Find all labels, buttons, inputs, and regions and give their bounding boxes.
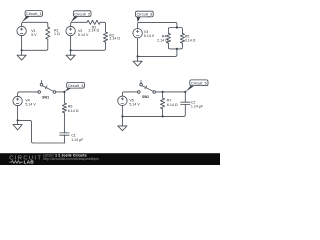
wire R6 to C1 bbox=[63, 113, 65, 133]
svg-text:SW1: SW1 bbox=[42, 95, 49, 99]
svg-text:5.14 V: 5.14 V bbox=[144, 34, 155, 38]
svg-text:LAB: LAB bbox=[24, 160, 35, 165]
wire circuit4 bottom bbox=[18, 120, 65, 143]
svg-text:5.14 V: 5.14 V bbox=[129, 103, 140, 107]
node dot circuit5 left bbox=[121, 115, 123, 117]
node dot circuit3 bottom bbox=[176, 48, 178, 50]
node dot circuit2 bbox=[70, 49, 72, 51]
node dot circuit5 R7 bottom bbox=[162, 115, 164, 117]
capacitor C2 bbox=[181, 102, 190, 104]
svg-text:2.14 Ω: 2.14 Ω bbox=[89, 29, 100, 33]
node dot circuit1 bbox=[21, 49, 23, 51]
capacitor C1 bbox=[60, 133, 69, 135]
svg-text:Circuit_4: Circuit_4 bbox=[68, 83, 85, 88]
svg-text:6.14 Ω: 6.14 Ω bbox=[167, 103, 178, 107]
wire R3 bottom bbox=[71, 42, 106, 50]
wire circuit3 top bbox=[138, 22, 177, 28]
ground circuit2 bbox=[66, 55, 75, 60]
ground circuit1 bbox=[17, 55, 26, 60]
voltage source V2 bbox=[66, 26, 75, 35]
node dot circuit4 corner bbox=[63, 91, 65, 93]
label Circuit_4 bbox=[65, 82, 85, 91]
resistor R2 bbox=[87, 20, 100, 24]
wire circuit3 bottom stub bbox=[138, 49, 177, 57]
wire V4 bottom bbox=[17, 106, 19, 125]
wire circuit4 top bbox=[18, 92, 39, 96]
svg-text:3.14 Ω: 3.14 Ω bbox=[109, 37, 120, 41]
wire circuit4 right bbox=[63, 92, 65, 103]
wire SW1 to corner bbox=[56, 91, 65, 93]
svg-text:1.14 μF: 1.14 μF bbox=[191, 105, 204, 109]
svg-text:http://circuitlab.com/c6kkdqsm: http://circuitlab.com/c6kkdqsmb6hpw bbox=[43, 157, 99, 161]
resistor R1 bbox=[46, 27, 50, 39]
node dot circuit5 corner bbox=[184, 91, 186, 93]
wire C2 bottom bbox=[122, 104, 185, 116]
wire circuit3 bottom bar bbox=[168, 43, 182, 49]
svg-text:Circuit_2: Circuit_2 bbox=[74, 11, 91, 16]
voltage source V4 bbox=[13, 96, 22, 105]
wire SW2 to R7 bbox=[155, 91, 185, 93]
svg-text:SW2: SW2 bbox=[142, 95, 149, 99]
svg-text:Circuit_3: Circuit_3 bbox=[137, 12, 154, 17]
ground circuit4 bbox=[13, 125, 22, 130]
switch SW2 bbox=[138, 91, 141, 94]
wire circuit5 top bbox=[122, 92, 137, 96]
resistor R4 bbox=[166, 33, 170, 43]
ground circuit5 bbox=[118, 126, 127, 131]
resistor R7 bbox=[161, 98, 165, 109]
svg-text:6.14 Ω: 6.14 Ω bbox=[68, 109, 79, 113]
resistor R3 bbox=[103, 32, 107, 42]
wire C1 bottom bbox=[63, 135, 65, 143]
ground circuit3 bbox=[133, 61, 142, 66]
wire circuit2 top bbox=[71, 22, 87, 26]
node dot circuit5 R7 top bbox=[162, 91, 164, 93]
node dot circuit4 bbox=[17, 119, 19, 121]
switch SW1 bbox=[38, 91, 41, 94]
svg-text:2.14 Ω: 2.14 Ω bbox=[157, 39, 168, 43]
wire R2 to corner bbox=[100, 22, 105, 32]
wire V3 bottom bbox=[137, 38, 139, 61]
svg-text:1 Ω: 1 Ω bbox=[54, 32, 60, 36]
resistor R6 bbox=[62, 103, 66, 113]
label Circuit_1 bbox=[22, 11, 43, 23]
svg-text:Circuit_1: Circuit_1 bbox=[26, 11, 43, 16]
wire circuit3 top bar bbox=[168, 28, 182, 34]
node dot circuit3 left bbox=[137, 55, 139, 57]
svg-text:5.14 V: 5.14 V bbox=[78, 33, 89, 37]
label Circuit_5 bbox=[186, 80, 208, 92]
node dot circuit3 top bbox=[176, 26, 178, 28]
voltage source V5 bbox=[118, 96, 127, 105]
resistor R5 bbox=[180, 33, 184, 43]
svg-text:1.14 μF: 1.14 μF bbox=[71, 138, 84, 142]
svg-text:3.14 Ω: 3.14 Ω bbox=[185, 39, 196, 43]
label Circuit_3 bbox=[136, 11, 154, 22]
resistor R7 wire top bbox=[162, 92, 164, 98]
CircuitLab logo resistor zigzag bbox=[10, 161, 24, 164]
footer bar bbox=[0, 153, 220, 165]
svg-text:5.14 V: 5.14 V bbox=[25, 103, 36, 107]
wire R7 bottom bbox=[162, 109, 164, 117]
label Circuit_2 bbox=[71, 11, 91, 22]
wire V5 bottom bbox=[121, 106, 123, 126]
wire V1 bottom bbox=[21, 36, 23, 56]
voltage source V3 bbox=[133, 29, 142, 38]
svg-text:5 V: 5 V bbox=[31, 33, 37, 37]
wire C2 top bbox=[184, 92, 186, 102]
wire V2 bottom bbox=[70, 36, 72, 56]
voltage source V1 bbox=[17, 26, 26, 35]
wire circuit1 loop bbox=[22, 22, 48, 27]
svg-text:Circuit_5: Circuit_5 bbox=[191, 80, 208, 85]
wire R1 bottom bbox=[22, 39, 48, 50]
